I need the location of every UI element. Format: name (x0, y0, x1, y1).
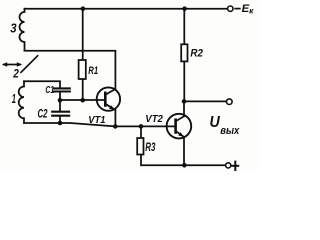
svg-text:R2: R2 (190, 48, 203, 60)
svg-text:R3: R3 (145, 142, 156, 154)
svg-text:2: 2 (12, 66, 19, 80)
svg-text:C1: C1 (45, 84, 54, 96)
svg-text:3: 3 (10, 22, 16, 36)
svg-text:вых: вых (220, 125, 240, 137)
svg-text:1: 1 (12, 92, 16, 106)
svg-text:C2: C2 (38, 108, 48, 120)
svg-text:R1: R1 (88, 65, 98, 77)
svg-text:U: U (210, 114, 221, 131)
svg-text:VT1: VT1 (88, 115, 106, 126)
svg-text:VT2: VT2 (145, 113, 163, 125)
